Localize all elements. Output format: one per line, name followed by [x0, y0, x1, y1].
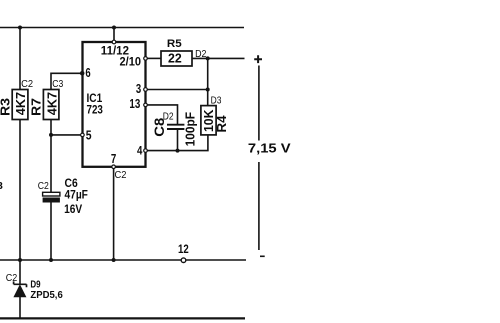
svg-text:ZPD5,6: ZPD5,6	[30, 289, 63, 301]
svg-text:12: 12	[178, 244, 189, 256]
svg-text:3: 3	[136, 81, 141, 96]
svg-text:R4: R4	[215, 115, 229, 132]
svg-text:4: 4	[137, 144, 143, 158]
svg-text:D2: D2	[195, 48, 207, 60]
svg-text:C2: C2	[115, 169, 127, 181]
svg-text:R5: R5	[167, 38, 182, 50]
svg-text:7,15 V: 7,15 V	[248, 141, 291, 156]
svg-text:47µF: 47µF	[65, 188, 88, 202]
svg-text:4K7: 4K7	[13, 92, 28, 115]
svg-text:100pF: 100pF	[182, 112, 197, 146]
svg-text:22: 22	[168, 51, 182, 65]
svg-text:C3: C3	[52, 78, 63, 90]
svg-text:7: 7	[111, 151, 116, 166]
svg-text:R3: R3	[0, 98, 12, 116]
svg-text:4K7: 4K7	[44, 92, 59, 115]
svg-text:10K: 10K	[201, 109, 216, 132]
svg-text:3: 3	[0, 180, 3, 192]
svg-text:6: 6	[85, 65, 90, 80]
svg-text:5: 5	[86, 127, 92, 142]
svg-text:R7: R7	[30, 98, 44, 116]
svg-text:2/10: 2/10	[120, 56, 142, 68]
svg-text:C2: C2	[38, 180, 49, 192]
svg-text:723: 723	[87, 103, 104, 117]
svg-text:D3: D3	[211, 95, 222, 107]
svg-text:13: 13	[129, 96, 140, 111]
svg-text:16V: 16V	[64, 202, 82, 216]
svg-text:C2: C2	[6, 272, 18, 284]
svg-text:C8: C8	[152, 117, 167, 137]
svg-text:C2: C2	[21, 78, 33, 90]
